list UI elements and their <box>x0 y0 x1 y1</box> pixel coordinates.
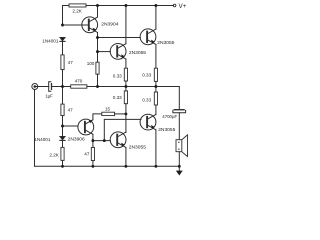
wire Q4 collector to Q6 base <box>93 140 111 142</box>
wire speaker to rail <box>178 152 180 167</box>
wire 100 to bus <box>97 74 99 86</box>
resistor R11 0.33 <box>154 68 157 81</box>
resistor R12 0.33 <box>154 92 157 105</box>
svg-text:470: 470 <box>75 78 83 83</box>
svg-text:V+: V+ <box>179 3 187 10</box>
resistor R6 2.2K <box>61 147 64 160</box>
wire output bus to capacitor <box>156 87 179 110</box>
svg-text:0.33: 0.33 <box>142 98 151 103</box>
wire 15 to column B <box>115 113 126 115</box>
wire Q1 emitter column <box>97 33 99 63</box>
wire node to Q3 base <box>98 37 141 39</box>
svg-text:100: 100 <box>87 61 95 66</box>
wire output bus <box>87 86 179 88</box>
wire Q4 base <box>63 125 79 127</box>
wire Q6 emitter to rail <box>125 148 127 167</box>
transistor Q1 2N3904 <box>82 17 98 33</box>
wire Q1 collector to rail <box>97 6 99 18</box>
svg-text:0.33: 0.33 <box>142 73 151 78</box>
svg-text:2.2K: 2.2K <box>49 153 59 158</box>
wire jack to C1 <box>36 86 49 88</box>
transistor Q3 2N3055 <box>140 29 156 45</box>
svg-text:47: 47 <box>84 151 90 156</box>
svg-text:1µF: 1µF <box>45 94 53 99</box>
resistor R7 15 <box>102 112 115 115</box>
wire Q3 collector to rail <box>155 6 157 30</box>
wire to Q4 base node <box>62 116 64 137</box>
svg-text:2.2K: 2.2K <box>72 8 82 13</box>
svg-text:47: 47 <box>68 60 74 65</box>
diode D1 1N4001 <box>60 37 65 41</box>
input jack J1 <box>32 84 38 90</box>
resistor R2 47 <box>61 55 64 70</box>
wire jack ground <box>34 89 36 166</box>
capacitor C1 1uF <box>49 82 52 92</box>
resistor R1 2.2K <box>69 4 86 7</box>
svg-text:2N3055: 2N3055 <box>129 50 146 56</box>
transistor Q4 2N3906 <box>78 119 94 135</box>
svg-text:47: 47 <box>68 107 74 112</box>
terminal V+ <box>173 4 176 7</box>
wire R9 to bus <box>125 81 127 87</box>
svg-text:1N4001: 1N4001 <box>34 137 51 142</box>
node junction dots <box>61 4 181 168</box>
wire D2 to R6 <box>62 141 64 148</box>
wire Q3 emitter <box>155 45 157 69</box>
wire left column upper <box>62 42 64 55</box>
svg-text:2N3906: 2N3906 <box>68 137 85 143</box>
wire top rail V+ <box>63 6 70 26</box>
svg-text:4700µF: 4700µF <box>162 114 177 119</box>
wire Q4 collector down <box>92 134 94 140</box>
capacitor C2 4700uF <box>173 110 186 113</box>
svg-text:15: 15 <box>105 106 111 111</box>
wire Q4 emitter to 15 <box>93 114 102 120</box>
wire left column below bus <box>62 87 64 105</box>
svg-text:0.33: 0.33 <box>113 95 122 100</box>
wire bottom ground rail <box>35 165 180 167</box>
diode D2 1N4001 <box>60 136 65 140</box>
wire R8 ends <box>92 141 94 148</box>
svg-text:2N3055: 2N3055 <box>129 145 146 151</box>
transistor Q2 2N3055 driver <box>110 44 126 60</box>
wire R6 to rail <box>62 160 64 166</box>
resistor R8 47 <box>91 147 94 160</box>
wire R12 ends <box>155 87 157 93</box>
wire left column to input bus <box>62 70 64 87</box>
wire C1 to node <box>52 86 71 88</box>
wire R10 ends <box>125 87 127 91</box>
wire Q5 emitter to rail <box>155 130 157 167</box>
wire Q2 emitter <box>125 59 127 68</box>
resistor R10 0.33 <box>124 91 127 104</box>
svg-text:2N3055: 2N3055 <box>158 127 175 133</box>
wire R11 to bus <box>155 81 157 86</box>
resistor R9 0.33 <box>124 68 127 81</box>
speaker LS1 <box>176 135 188 157</box>
wire Q1 base <box>63 24 89 26</box>
svg-text:0.33: 0.33 <box>113 73 122 78</box>
wire Q2 collector to rail <box>125 6 127 44</box>
wire node up and right to Q5 base <box>104 119 141 140</box>
transistor Q5 2N3055 <box>140 114 156 130</box>
svg-text:2N3055: 2N3055 <box>157 40 174 46</box>
ground symbol <box>176 166 183 175</box>
wire node to Q2 base <box>98 51 111 53</box>
transistor Q6 2N3055 <box>110 132 126 148</box>
resistor R4 470 <box>71 85 87 88</box>
wire capacitor to speaker <box>178 113 180 140</box>
wire top rail segment <box>86 5 173 7</box>
resistor R3 100 <box>96 62 99 74</box>
svg-text:1N4001: 1N4001 <box>42 38 59 43</box>
resistor R5 47 <box>61 104 64 116</box>
svg-text:2N3904: 2N3904 <box>101 21 118 27</box>
